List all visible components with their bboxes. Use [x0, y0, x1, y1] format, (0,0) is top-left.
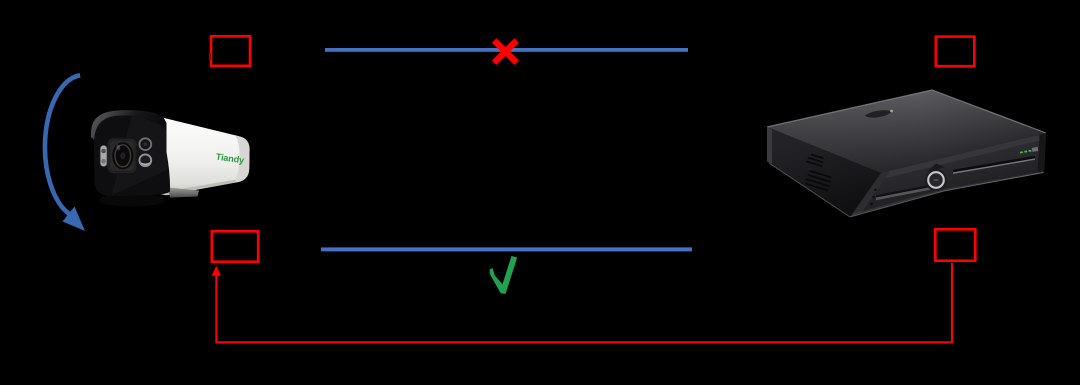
nvr ir window	[1032, 147, 1039, 152]
lens plate	[108, 138, 138, 174]
green check	[490, 256, 518, 294]
lens	[112, 142, 133, 169]
nvr front top bezel	[881, 133, 1046, 179]
module gloss	[112, 114, 168, 196]
mount bracket under body	[168, 188, 199, 198]
camera	[91, 110, 250, 206]
nvr upper slot	[953, 156, 1035, 173]
blue arrowhead	[63, 207, 86, 232]
red X on top wire	[494, 41, 516, 63]
nvr bottom lip	[852, 171, 1044, 216]
red arrowhead up	[212, 266, 221, 276]
nvr left face	[767, 127, 881, 217]
IR led top circle	[139, 138, 151, 150]
nvr front left chamfer	[850, 171, 890, 217]
nvr top edge highlights	[767, 90, 1046, 133]
nvr top face	[767, 90, 1046, 173]
NVR	[767, 90, 1046, 217]
red box bottom-right	[935, 229, 975, 260]
red box top-right	[936, 37, 975, 67]
side led pill	[100, 145, 107, 166]
nvr front face	[850, 133, 1046, 217]
IR led bottom circle	[139, 154, 151, 166]
nvr right cap	[1038, 133, 1047, 175]
nvr left edge highlight	[767, 127, 772, 164]
nvr top dimple	[865, 110, 893, 117]
nvr notch above ring	[927, 164, 946, 172]
camera white body	[157, 117, 250, 196]
small red notch on box edge	[209, 53, 211, 60]
nvr left face vents	[799, 153, 837, 192]
camera front module	[94, 113, 171, 196]
nvr lower slot	[876, 184, 936, 198]
nvr front ring	[925, 169, 947, 191]
nvr chamfer screws	[870, 189, 876, 205]
camera hood	[91, 110, 167, 140]
nvr bottom fringe	[769, 163, 1044, 217]
top link wire (blue)	[325, 48, 688, 52]
bottom link wire (blue)	[321, 247, 692, 251]
red feedback wire bottom	[216, 263, 952, 342]
camera body bottom shade	[166, 180, 236, 196]
red box bottom-left	[212, 231, 258, 261]
blue rotate arrow	[45, 75, 80, 214]
red box top-left	[211, 36, 250, 66]
camera end cap	[234, 135, 250, 183]
nvr status leds	[1020, 151, 1023, 153]
camera shadow	[99, 194, 165, 207]
